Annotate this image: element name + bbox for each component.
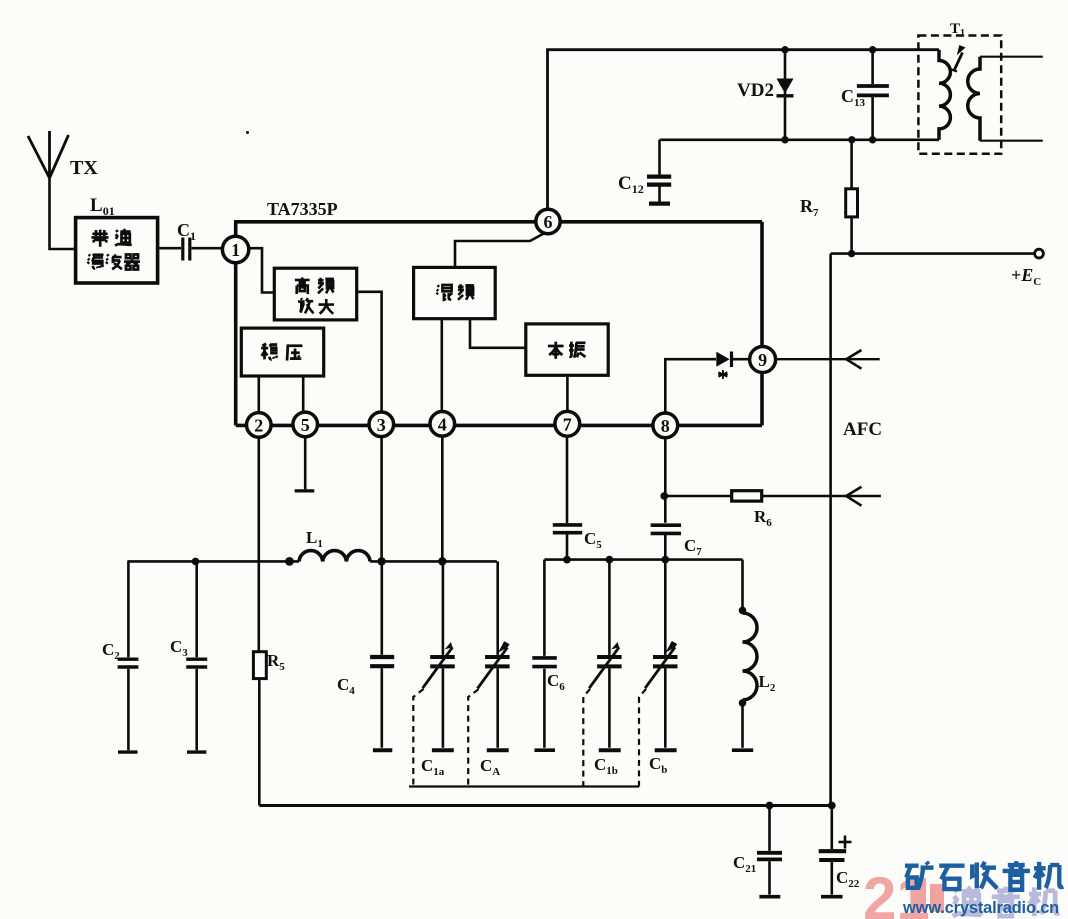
- svg-text:8: 8: [661, 416, 670, 436]
- svg-text:TX: TX: [70, 157, 98, 179]
- svg-text:www.crystalradio.cn: www.crystalradio.cn: [902, 899, 1059, 917]
- svg-text:AFC: AFC: [843, 419, 882, 440]
- svg-text:4: 4: [438, 414, 447, 434]
- svg-text:1: 1: [231, 240, 240, 260]
- svg-text:7: 7: [563, 414, 572, 434]
- svg-text:9: 9: [758, 350, 767, 370]
- svg-text:5: 5: [301, 415, 310, 435]
- svg-text:TA7335P: TA7335P: [267, 199, 338, 219]
- svg-text:VD2: VD2: [737, 80, 774, 101]
- svg-text:6: 6: [544, 212, 553, 232]
- svg-text:2: 2: [254, 416, 263, 436]
- svg-text:3: 3: [377, 415, 386, 435]
